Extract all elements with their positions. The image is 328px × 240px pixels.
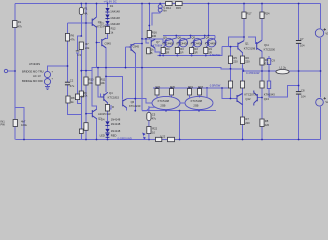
diode lower D4 xyxy=(105,121,109,125)
rail series resistor right xyxy=(168,137,175,141)
emitter resistor row upper 1 xyxy=(161,48,165,56)
inductor L output xyxy=(276,70,289,74)
resistor x86 lower xyxy=(84,123,88,131)
wire right supply bus xyxy=(320,4,322,140)
wire driver feed y46.7 xyxy=(222,46,238,48)
wire x242.5 column xyxy=(242,53,244,140)
wire x77.5 branch xyxy=(78,36,82,104)
svg-text:R7: R7 xyxy=(245,117,249,121)
svg-text:1N4148: 1N4148 xyxy=(111,118,121,122)
svg-text:1N4148: 1N4148 xyxy=(111,122,121,126)
svg-text:KTC5200: KTC5200 xyxy=(264,48,276,52)
svg-text:D4: D4 xyxy=(101,118,105,122)
wire bottom ground rail xyxy=(16,139,321,141)
transistor VAS upper NPN xyxy=(129,44,136,54)
lower driver transistor xyxy=(237,94,243,105)
svg-text:22k: 22k xyxy=(85,46,90,50)
wire Q2 emitter down xyxy=(96,118,98,140)
lower output rail resistor row 2 xyxy=(170,89,174,98)
transistor bias Vbe multiplier xyxy=(151,39,155,48)
resistor x242.5 upper xyxy=(240,56,244,64)
lower output rail resistor row 4 xyxy=(198,88,208,98)
diode LED xyxy=(106,134,110,138)
resistor mid bottom xyxy=(147,127,151,140)
svg-text:KTC4408: KTC4408 xyxy=(162,41,174,45)
capacitor zobel upper blue box xyxy=(267,59,270,65)
wire output line y67.6 main xyxy=(92,68,320,71)
svg-text:KTA1943: KTA1943 xyxy=(264,92,276,96)
wire lower output rail y88 xyxy=(153,87,231,89)
svg-text:R16: R16 xyxy=(152,30,157,34)
svg-text:BRIDGE MO TRU: BRIDGE MO TRU xyxy=(22,70,44,74)
svg-text:Q12: Q12 xyxy=(245,97,251,101)
wire Q11 base path xyxy=(248,37,257,44)
resistor R2 input bottom xyxy=(13,120,17,127)
svg-text:R2: R2 xyxy=(194,47,198,51)
resistor x262 bottom xyxy=(260,119,264,127)
wire Q3 emitter to VAS base xyxy=(97,27,100,68)
svg-text:0.47R/10W: 0.47R/10W xyxy=(246,71,260,75)
wire Q2 collector link xyxy=(92,71,96,110)
wire bias to first output base xyxy=(155,39,163,43)
svg-text:R10: R10 xyxy=(89,77,94,81)
svg-text:PW: PW xyxy=(1,123,6,127)
wire x262 column lower xyxy=(261,71,263,140)
svg-text:BRIDGE MO DRI: BRIDGE MO DRI xyxy=(22,79,43,83)
svg-text:KTC2240: KTC2240 xyxy=(129,104,141,108)
svg-text:10: 10 xyxy=(152,130,155,134)
svg-text:0.22: 0.22 xyxy=(160,135,166,139)
wire upper output collector rail xyxy=(163,4,215,39)
svg-text:L1 2u: L1 2u xyxy=(279,65,286,69)
svg-text:KTC1815: KTC1815 xyxy=(108,96,120,100)
lower output rail resistor row 3 xyxy=(188,89,192,98)
svg-text:47k: 47k xyxy=(18,24,23,28)
wire current source column xyxy=(152,4,160,26)
wire x86 column xyxy=(85,4,87,140)
svg-text:R22: R22 xyxy=(152,127,157,131)
svg-text:220: 220 xyxy=(245,121,250,125)
svg-text:0.5: 0.5 xyxy=(265,62,269,66)
wire diode chain upper column xyxy=(106,4,108,39)
svg-text:220: 220 xyxy=(245,60,250,64)
svg-text:0.5R/5W: 0.5R/5W xyxy=(210,53,221,57)
diode D1 xyxy=(105,8,109,12)
blue port arrows mid bottom xyxy=(142,133,146,140)
svg-text:KTC4408: KTC4408 xyxy=(191,41,203,45)
svg-text:KTC4408: KTC4408 xyxy=(205,41,217,45)
svg-text:R17: R17 xyxy=(247,12,252,16)
svg-text:B: B xyxy=(151,51,153,55)
wire Q3 collector up xyxy=(96,4,98,18)
svg-text:R18: R18 xyxy=(198,85,203,89)
wire VAS upper collector to rail xyxy=(135,4,142,111)
wire x111 stub xyxy=(108,105,112,109)
svg-text:LED: LED xyxy=(100,133,105,137)
fuse capsule x81.3 top xyxy=(79,8,83,15)
diode D2 xyxy=(105,15,109,19)
svg-text:R11: R11 xyxy=(101,77,106,81)
svg-text:R7: R7 xyxy=(85,42,89,46)
svg-text:AT1943S: AT1943S xyxy=(29,62,40,66)
resistor x98 xyxy=(96,77,100,85)
wire VAS2 emitter xyxy=(126,108,128,111)
output transistor Q5 NPN xyxy=(163,36,176,48)
transistor Q2 CCS xyxy=(92,109,96,118)
resistor feedback lower x67.5 xyxy=(66,96,70,103)
svg-text:Q4: Q4 xyxy=(109,91,113,95)
wire bias horizontal xyxy=(142,39,155,43)
resistor x242.5 lower xyxy=(240,81,244,88)
svg-text:1N4148: 1N4148 xyxy=(110,22,120,26)
svg-text:104: 104 xyxy=(301,94,306,98)
resistor top rail A xyxy=(166,2,173,6)
transistor VAS1 PNP xyxy=(102,38,106,48)
svg-text:220: 220 xyxy=(233,60,238,64)
output transistor Q8 NPN xyxy=(206,38,216,47)
resistor bias chain xyxy=(147,31,151,38)
resistor x81.3 upper xyxy=(79,42,83,50)
output transistor Q7 NPN xyxy=(191,36,204,48)
resistor feedback upper x67.5 xyxy=(65,34,69,42)
svg-text:R21: R21 xyxy=(156,85,161,89)
svg-text:KTC5198: KTC5198 xyxy=(158,99,170,103)
wire VAS1 leads xyxy=(105,39,107,93)
svg-text:AC 1V: AC 1V xyxy=(33,74,41,78)
svg-text:KTC3198: KTC3198 xyxy=(244,46,256,50)
svg-text:1N4148: 1N4148 xyxy=(110,16,120,20)
svg-text:C3: C3 xyxy=(78,53,82,57)
diode small x81.3 lower xyxy=(79,129,83,134)
svg-text:1N4148: 1N4148 xyxy=(110,9,120,13)
output PNP ellipse pair 1 xyxy=(152,96,180,110)
wire y37 link xyxy=(229,37,244,47)
wire source top lead and horizontal to C1 xyxy=(48,66,68,72)
svg-text:10k: 10k xyxy=(88,81,93,85)
svg-text:R6: R6 xyxy=(71,34,75,38)
svg-text:KTC4408: KTC4408 xyxy=(176,41,188,45)
svg-text:C5: C5 xyxy=(152,112,156,116)
wire bias emitter path xyxy=(155,48,160,56)
svg-text:47u: 47u xyxy=(70,84,75,88)
ground below source xyxy=(45,85,50,90)
svg-text:R15: R15 xyxy=(176,6,181,10)
supply source V1 xyxy=(315,28,326,37)
wire input port lead xyxy=(8,70,16,72)
svg-text:C2: C2 xyxy=(70,78,74,82)
wire zobel column x269 xyxy=(269,56,299,97)
wire output line y70.7 left xyxy=(81,70,92,72)
wire x244 column xyxy=(243,4,245,41)
svg-text:220: 220 xyxy=(265,123,270,127)
svg-text:C8: C8 xyxy=(301,88,305,92)
wire VAS upper emitter column xyxy=(134,53,136,111)
wire upper output emitter rail xyxy=(158,47,223,56)
wire x81.3 column xyxy=(80,4,82,140)
svg-text:R19: R19 xyxy=(188,85,193,89)
capacitor zobel lower blue box xyxy=(267,81,270,89)
transistor Q3 top-left PNP xyxy=(92,17,96,27)
svg-text:R24: R24 xyxy=(265,12,270,16)
wire input jog branch xyxy=(15,108,24,140)
resistor R1 input top xyxy=(13,21,17,28)
wire VAS2 collector line xyxy=(127,99,153,103)
svg-text:A1015 GR: A1015 GR xyxy=(98,112,111,116)
svg-text:C945: C945 xyxy=(105,41,112,45)
emitter resistor row upper 3 xyxy=(190,48,194,56)
svg-text:C7: C7 xyxy=(300,37,304,41)
svg-text:Q8: Q8 xyxy=(177,35,181,39)
supply source V2 xyxy=(316,97,326,106)
resistor x244 top xyxy=(242,12,246,19)
diode D3 xyxy=(105,21,109,25)
source V sine lower xyxy=(44,79,50,85)
wire feedback column x67.5 xyxy=(68,23,82,115)
resistor top rail B xyxy=(176,2,183,6)
resistor x262 lower xyxy=(260,81,264,88)
output PNP ellipse pair 2 xyxy=(180,96,213,110)
svg-text:R8: R8 xyxy=(265,119,269,123)
capacitor C x298.6 lower xyxy=(296,92,301,95)
wire input bus left xyxy=(14,4,16,140)
svg-text:R6: R6 xyxy=(245,56,249,60)
svg-text:Q7: Q7 xyxy=(156,40,160,44)
svg-text:D3: D3 xyxy=(100,21,104,25)
svg-text:R0: R0 xyxy=(265,58,269,62)
svg-text:R4: R4 xyxy=(166,47,170,51)
input port IN xyxy=(4,69,7,72)
capacitor mid bottom capsule xyxy=(142,106,155,127)
svg-text:47k: 47k xyxy=(70,38,75,42)
wire Q4 emitter resistor chain xyxy=(107,103,109,140)
svg-text:Q6: Q6 xyxy=(131,100,135,104)
svg-text:KTC5198: KTC5198 xyxy=(191,99,203,103)
wire VAS upper NPN base xyxy=(126,47,129,68)
resistor x77.5 xyxy=(75,94,79,100)
svg-text:10k: 10k xyxy=(83,94,88,98)
diode lower D5 xyxy=(105,129,109,133)
svg-text:1R: 1R xyxy=(166,51,169,55)
svg-text:2SB: 2SB xyxy=(193,103,198,107)
resistor x262 top xyxy=(260,12,264,19)
svg-text:RED: RED xyxy=(111,133,117,137)
capacitor small x77.5 xyxy=(76,51,80,53)
svg-text:D1: D1 xyxy=(110,4,114,8)
wire top +V rail xyxy=(15,3,321,5)
source V sine upper xyxy=(44,71,50,77)
svg-text:1R: 1R xyxy=(180,51,183,55)
wire lower output base xyxy=(257,97,262,99)
svg-text:Q13: Q13 xyxy=(264,97,270,101)
wire lower rail jog x179.5 xyxy=(179,111,181,140)
svg-text:+41.6V DC: +41.6V DC xyxy=(104,0,117,4)
emitter resistor row upper 2 xyxy=(175,48,179,56)
wire base line y23 to Q1 xyxy=(68,22,93,24)
resistor below Q4 emitter xyxy=(105,105,109,112)
svg-text:4k7: 4k7 xyxy=(21,120,26,124)
svg-text:47u: 47u xyxy=(152,117,157,121)
resistor x242.5 bottom xyxy=(240,117,244,125)
resistor bias lower xyxy=(147,48,151,54)
svg-text:0-GROUND: 0-GROUND xyxy=(118,137,132,141)
rail series resistor left xyxy=(156,137,162,141)
svg-text:Q4: Q4 xyxy=(206,35,210,39)
svg-text:C945: C945 xyxy=(133,44,140,48)
svg-text:R: R xyxy=(112,105,114,109)
lower output rail resistor row 1 xyxy=(155,89,159,98)
svg-text:104: 104 xyxy=(300,44,305,48)
wire lower driver base xyxy=(222,88,237,99)
svg-text:R1: R1 xyxy=(209,47,213,51)
wire x230.5 column xyxy=(230,47,232,99)
svg-text:1N4148: 1N4148 xyxy=(111,129,121,133)
current source I1 double circle xyxy=(158,5,162,12)
svg-text:R1: R1 xyxy=(18,20,22,24)
transistor Q4 input xyxy=(101,92,108,103)
svg-text:KTC2073: KTC2073 xyxy=(244,92,256,96)
wire lower link y110.7 xyxy=(142,110,216,112)
output transistor Q11 top right xyxy=(257,40,262,51)
svg-text:4A: 4A xyxy=(84,12,87,16)
capacitor C feedback x67.5 xyxy=(65,82,70,85)
wire y76.4 link xyxy=(106,76,122,99)
svg-text:Q5: Q5 xyxy=(191,35,195,39)
lower output transistor PNP right xyxy=(254,91,257,106)
svg-text:Q9: Q9 xyxy=(163,35,167,39)
svg-text:0.5R/5W: 0.5R/5W xyxy=(210,83,221,87)
svg-text:R12: R12 xyxy=(111,27,116,31)
svg-text:330: 330 xyxy=(152,34,157,38)
svg-text:R20: R20 xyxy=(170,85,175,89)
svg-text:100u: 100u xyxy=(21,123,27,127)
resistor x230.5 lower xyxy=(228,81,232,88)
driver transistor upper xyxy=(238,41,244,53)
svg-text:R8: R8 xyxy=(71,96,75,100)
svg-text:Q1: Q1 xyxy=(245,42,249,46)
resistor x262 upper xyxy=(260,58,264,65)
svg-text:R3: R3 xyxy=(180,47,184,51)
resistor x230.5 upper xyxy=(228,56,232,64)
capacitor C x298.6 upper xyxy=(296,41,301,44)
resistor x86 upper xyxy=(84,77,88,85)
resistor diode chain xyxy=(105,27,109,34)
svg-text:1R: 1R xyxy=(194,51,197,55)
svg-text:C9: C9 xyxy=(271,58,275,62)
resistor x81.3 mid xyxy=(79,91,83,97)
svg-text:Q11: Q11 xyxy=(264,43,269,47)
wire x262 column upper xyxy=(261,4,263,72)
svg-text:2SB: 2SB xyxy=(160,103,165,107)
wire x298.6 column xyxy=(298,4,300,140)
svg-text:R5: R5 xyxy=(233,56,237,60)
output transistor Q6 NPN xyxy=(177,36,190,48)
transistor VAS2 xyxy=(123,99,127,108)
svg-text:10k: 10k xyxy=(100,81,105,85)
wire bias resistor column xyxy=(148,4,150,39)
wire x98 column xyxy=(98,68,101,97)
svg-text:F1: F1 xyxy=(84,7,88,11)
emitter resistor row upper 4 xyxy=(204,48,208,56)
wire Q2 base rail xyxy=(86,113,92,115)
svg-text:R14: R14 xyxy=(166,6,171,10)
